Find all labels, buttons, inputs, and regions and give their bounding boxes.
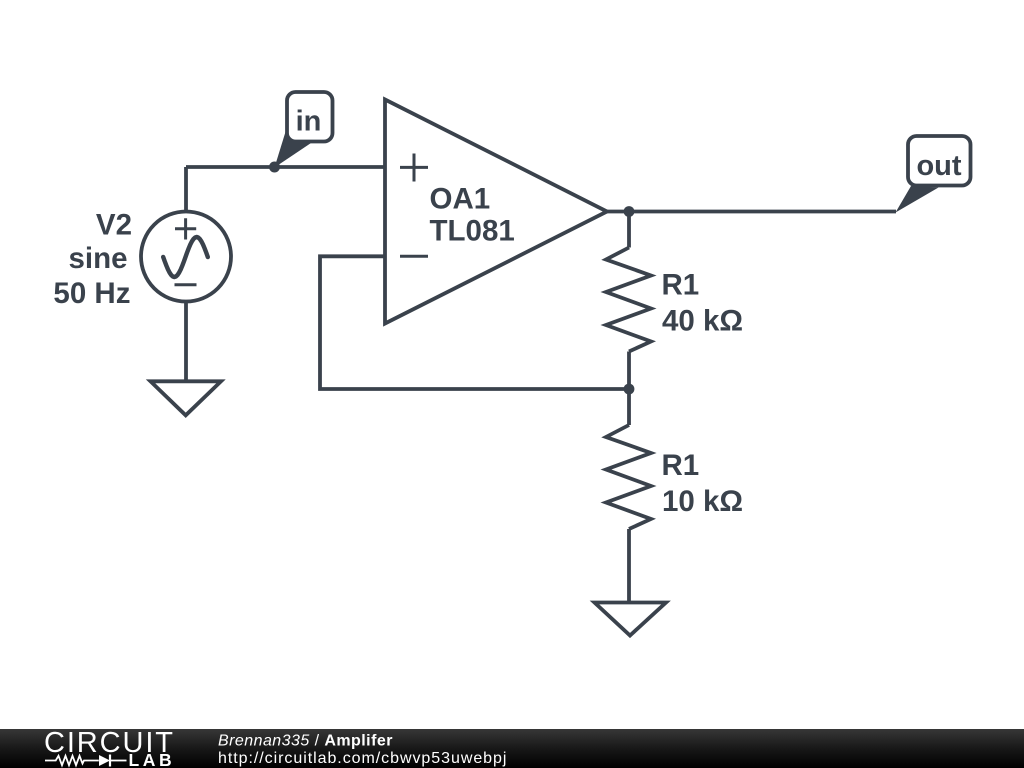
- svg-text:Brennan335 / Amplifer: Brennan335 / Amplifer: [218, 733, 393, 750]
- svg-text:TL081: TL081: [430, 215, 515, 248]
- wire: feedback node to R1 10k: [627, 389, 631, 425]
- wire: op-amp output to out flag: [607, 210, 896, 214]
- wire: output node to R1 40k: [627, 212, 631, 248]
- svg-text:in: in: [296, 106, 322, 138]
- flag in: [275, 92, 333, 168]
- wire: feedback from node to inverting input: [320, 256, 629, 389]
- svg-text:R1: R1: [662, 269, 700, 302]
- ground under V2: [151, 381, 222, 415]
- wire: V2 top to op-amp non-inverting input: [186, 165, 385, 169]
- resistor R1 10k: [606, 425, 651, 529]
- wire: V2 top lead: [184, 167, 188, 212]
- svg-text:OA1: OA1: [430, 183, 491, 216]
- svg-text:out: out: [916, 150, 961, 182]
- footer bar: [0, 729, 1024, 768]
- wire: V2 bottom lead: [184, 302, 188, 382]
- node: output junction dot: [624, 206, 635, 217]
- op-amp OA1: [385, 100, 607, 324]
- flag out: [896, 136, 971, 213]
- wire: R1 40k to feedback node: [627, 352, 631, 390]
- svg-text:R1: R1: [662, 449, 700, 482]
- CircuitLab logo: resistor-diode art: [45, 755, 127, 767]
- wire: R1 10k to ground: [627, 529, 631, 603]
- svg-text:V2: V2: [96, 209, 132, 242]
- svg-text:http://circuitlab.com/cbwvp53u: http://circuitlab.com/cbwvp53uwebpj: [218, 750, 507, 767]
- svg-text:40 kΩ: 40 kΩ: [662, 305, 743, 338]
- svg-text:LAB: LAB: [129, 750, 176, 768]
- node: input junction dot: [269, 162, 280, 173]
- svg-text:10 kΩ: 10 kΩ: [662, 485, 743, 518]
- resistor R1 40k: [606, 248, 651, 352]
- svg-text:50 Hz: 50 Hz: [53, 277, 130, 310]
- ground bottom: [595, 603, 667, 636]
- voltage source V2: [141, 212, 231, 302]
- node: feedback junction dot: [624, 384, 635, 395]
- svg-text:sine: sine: [68, 242, 127, 275]
